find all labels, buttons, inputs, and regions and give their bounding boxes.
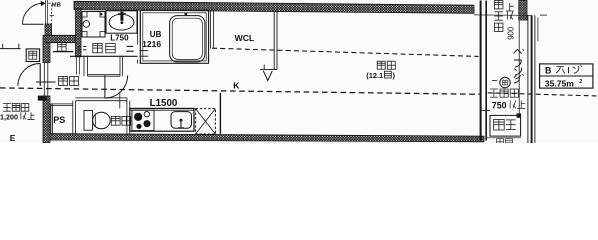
svg-text:2: 2 — [579, 79, 582, 85]
svg-text:MB: MB — [52, 2, 61, 8]
svg-text:750: 750 — [492, 100, 507, 110]
svg-text:900: 900 — [507, 26, 516, 40]
svg-text:1216: 1216 — [142, 39, 161, 49]
svg-text:L750: L750 — [110, 33, 129, 42]
svg-text:PS: PS — [53, 115, 65, 125]
svg-text:(12.1: (12.1 — [366, 71, 383, 80]
svg-text:WCL: WCL — [235, 33, 255, 43]
svg-text:K: K — [233, 81, 239, 91]
svg-text:L1500: L1500 — [150, 98, 178, 109]
svg-text:UB: UB — [150, 30, 162, 39]
svg-text:E: E — [10, 133, 16, 143]
svg-text:35.75m: 35.75m — [545, 78, 575, 88]
svg-text:B: B — [545, 66, 551, 76]
svg-text:1,200: 1,200 — [0, 112, 18, 121]
